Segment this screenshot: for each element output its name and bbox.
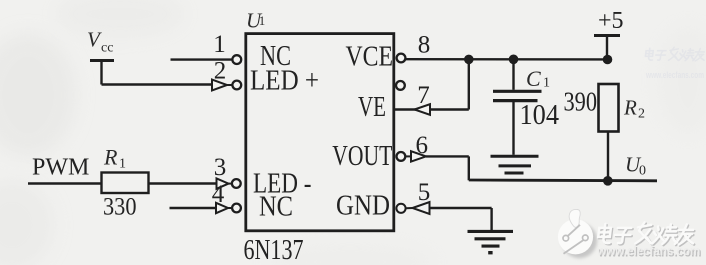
pin number 4 — [212, 181, 225, 208]
R1 reference label — [103, 145, 126, 172]
svg-text:1: 1 — [213, 31, 226, 58]
pin label VE (pin7) — [358, 91, 386, 123]
pin number 7 — [417, 82, 430, 109]
svg-text:3: 3 — [214, 154, 227, 181]
svg-text:www.elecfans.com: www.elecfans.com — [596, 243, 700, 258]
svg-text:VCE: VCE — [346, 42, 394, 73]
arrow out of pin 6 — [406, 151, 427, 161]
svg-text:NC: NC — [259, 191, 293, 223]
junction +5/R2 node — [603, 55, 613, 65]
junction C1 node — [509, 55, 519, 65]
arrow into pin 4 — [216, 203, 232, 213]
svg-text:www.elecfans.com: www.elecfans.com — [645, 70, 704, 81]
wire R2 bottom — [607, 132, 609, 181]
pin label VCE (pin8) — [346, 42, 394, 73]
svg-text:VE: VE — [358, 91, 386, 123]
pin number 6 — [416, 132, 429, 159]
svg-text:0: 0 — [639, 164, 646, 179]
svg-text:4: 4 — [212, 181, 225, 208]
svg-text:cc: cc — [101, 41, 113, 56]
junction VE node — [464, 55, 474, 65]
wire pin5 down — [490, 208, 492, 231]
svg-text:2: 2 — [214, 58, 227, 85]
capacitor C1 — [493, 59, 542, 155]
C1 value 104 — [520, 99, 560, 131]
wire R1 to pin3 — [149, 182, 219, 184]
op-amp U1 (optocoupler 6N137 body) — [246, 34, 394, 231]
pin number 1 — [213, 31, 226, 58]
pin circle 1 — [232, 55, 241, 64]
pin circle 6 — [397, 152, 406, 161]
faint corner watermark (decorative) — [645, 47, 706, 81]
wire +5 down — [606, 36, 608, 60]
pin number 3 — [214, 154, 227, 181]
pin circle 2 — [232, 81, 241, 90]
wire VE vertical — [468, 59, 470, 109]
wire output U0 — [469, 179, 657, 183]
wire stub pin 4 — [170, 207, 217, 209]
svg-text:GND: GND — [336, 190, 390, 222]
svg-text:R: R — [103, 145, 118, 170]
ground (C1) — [491, 156, 539, 173]
svg-text:390: 390 — [564, 87, 598, 117]
wire pin6 right — [426, 155, 469, 157]
watermark (decorative) — [558, 209, 702, 259]
ground (pin5 GND) — [468, 231, 514, 252]
junction R2/U0 node — [603, 176, 613, 186]
pin number 2 — [214, 58, 227, 85]
wire pin6 down — [468, 156, 470, 180]
R2 value 390 — [564, 87, 598, 117]
svg-text:R: R — [623, 96, 637, 120]
pin label NC (pin4) — [259, 191, 293, 223]
svg-text:1: 1 — [119, 157, 126, 172]
R1 value 330 — [103, 194, 137, 221]
pin label LED + (pin2) — [250, 65, 319, 97]
wire pin8 to +5 node — [406, 58, 609, 61]
pin number 8 — [418, 32, 431, 59]
svg-text:2: 2 — [638, 107, 645, 122]
power terminal +5 — [594, 8, 624, 36]
node PWM label — [32, 155, 89, 181]
svg-text:330: 330 — [103, 194, 137, 221]
wire Vcc down — [100, 61, 102, 85]
svg-text:C: C — [526, 66, 541, 91]
svg-text:1: 1 — [543, 76, 550, 91]
6N137 value label — [244, 235, 304, 265]
svg-text:V: V — [87, 28, 102, 52]
svg-text:PWM: PWM — [32, 155, 89, 181]
pin number 5 — [418, 179, 431, 206]
wire PWM to R1 — [28, 182, 102, 184]
svg-text:104: 104 — [520, 99, 560, 131]
power terminal Vcc — [87, 28, 114, 61]
pin circle 8 — [397, 54, 406, 63]
pin circle 5 — [396, 204, 405, 213]
resistor R1 — [102, 173, 149, 194]
wire Vcc to pin2 — [102, 83, 213, 85]
pin circle 4 — [232, 204, 241, 213]
arrow into pin 7 — [415, 104, 431, 115]
svg-text:+5: +5 — [598, 8, 624, 34]
arrow into pin 5 — [406, 202, 430, 214]
pin label GND (pin5) — [336, 190, 390, 222]
svg-text:1: 1 — [259, 13, 266, 28]
svg-text:LED +: LED + — [250, 65, 319, 97]
wire VE horizontal — [395, 108, 469, 110]
arrow into pin 3 — [217, 178, 233, 188]
resistor R2 — [599, 84, 619, 132]
svg-text:VOUT: VOUT — [332, 140, 392, 172]
pin circle 3 — [232, 179, 241, 188]
pin circle 7 — [396, 81, 405, 90]
node U0 label — [625, 153, 646, 179]
svg-text:6N137: 6N137 — [244, 235, 304, 265]
svg-text:8: 8 — [418, 32, 431, 59]
pin label LED - (pin3) — [253, 168, 312, 200]
wire stub pin 1 — [171, 58, 233, 60]
C1 reference label — [526, 66, 550, 91]
arrow into pin 2 — [212, 80, 233, 91]
wire pin5 right — [430, 207, 492, 209]
U1 reference label — [246, 9, 265, 33]
pin label NC (pin1) — [260, 41, 291, 72]
pin label VOUT (pin6) — [332, 140, 392, 172]
R2 reference label — [623, 96, 645, 122]
